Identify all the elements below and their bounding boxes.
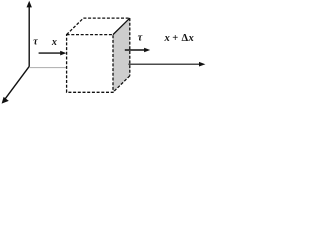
x+dx axis arrow (long, to the right) [128,63,200,65]
cube back-right edge (dashed) [129,18,131,76]
cube front face (dashed) [67,35,113,93]
y-axis arrow [28,6,30,67]
z-axis arrow (toward viewer, lower-left) [5,66,29,99]
shear arrow tau at x+dx face [125,49,146,51]
svg-text:x: x [51,37,57,48]
cube back-top edge (dashed) [83,17,129,19]
svg-text:τ: τ [138,32,143,43]
cube top-left slant edge (dashed) [67,18,84,34]
cube bottom-right slant edge (dashed) [113,76,130,93]
wire: faint x-axis line from origin to element [30,67,67,69]
shear arrow tau at x face [39,52,62,54]
shaded right face of element (x+dx face) [113,18,130,92]
svg-text:τ: τ [33,37,38,48]
cube top-right slant edge (solid) [113,18,130,34]
